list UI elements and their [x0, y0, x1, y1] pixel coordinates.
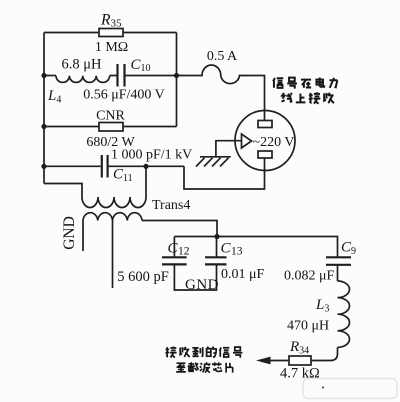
svg-text:1 MΩ: 1 MΩ	[95, 40, 128, 55]
svg-text:0.082 μF: 0.082 μF	[284, 269, 335, 284]
svg-text:0.56 μF/400 V: 0.56 μF/400 V	[83, 88, 165, 103]
svg-text:1 000 pF/1 kV: 1 000 pF/1 kV	[111, 148, 192, 163]
svg-text:C10: C10	[131, 57, 151, 74]
svg-text:6.8 μH: 6.8 μH	[62, 57, 103, 73]
svg-text:L4: L4	[47, 88, 61, 106]
svg-text:CNR: CNR	[96, 109, 125, 124]
svg-text:L3: L3	[315, 297, 329, 315]
svg-text:GND: GND	[61, 216, 78, 250]
svg-text:C13: C13	[221, 241, 243, 258]
svg-text:0.5 A: 0.5 A	[207, 49, 238, 64]
svg-text:~220 V: ~220 V	[253, 135, 295, 150]
svg-text:C11: C11	[113, 167, 133, 185]
svg-text:5 600 pF: 5 600 pF	[117, 269, 169, 285]
svg-text:Trans4: Trans4	[152, 198, 190, 213]
svg-text:0.01 μF: 0.01 μF	[221, 267, 265, 282]
svg-text:R34: R34	[289, 339, 309, 357]
svg-text:C9: C9	[341, 240, 356, 258]
svg-text:C12: C12	[168, 241, 190, 258]
svg-text:GND: GND	[185, 277, 219, 293]
svg-text:470 μH: 470 μH	[287, 319, 329, 334]
svg-text:4.7 kΩ: 4.7 kΩ	[280, 366, 320, 382]
svg-text:R35: R35	[100, 12, 122, 30]
